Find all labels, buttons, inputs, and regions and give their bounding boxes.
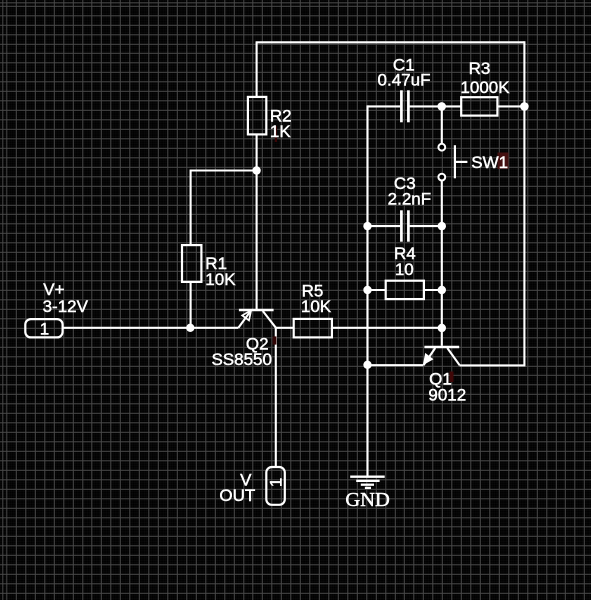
wire R2 bottom riser (256, 134, 258, 170)
svg-text:2.2nF: 2.2nF (388, 189, 431, 208)
switch SW1 (438, 144, 467, 181)
svg-text:10K: 10K (301, 297, 332, 316)
wire Q2 collector down to VOUT (275, 328, 277, 467)
capacitor C1 plates (401, 90, 408, 122)
junction node C1/R3/SW (437, 102, 446, 111)
junction node R4 left (363, 286, 371, 294)
wire switch top (441, 106, 443, 143)
wire R1 bottom riser (190, 282, 192, 328)
transistor Q1 (423, 347, 460, 365)
wire C3 right (410, 225, 442, 227)
junction node R3 right (520, 102, 529, 111)
red artifact Q1 (450, 372, 454, 383)
svg-text:1: 1 (40, 319, 49, 338)
red artifact Q2 (273, 336, 277, 344)
red artifact SW1 (498, 153, 509, 170)
svg-text:R3: R3 (469, 59, 491, 78)
svg-text:3-12V: 3-12V (43, 297, 89, 316)
wire node to R1 (191, 169, 258, 171)
wire R1 top riser (190, 170, 192, 246)
junction node R4 right (438, 286, 446, 294)
junction node Q1 emitter/GND (363, 361, 371, 369)
resistor R3 (461, 97, 497, 115)
svg-text:1K: 1K (270, 122, 291, 141)
wire top horizontal (256, 41, 525, 43)
wire R4 left (368, 289, 386, 291)
wire left column (366, 105, 368, 475)
capacitor C3 plates (401, 210, 408, 241)
wire C3 left (368, 225, 401, 227)
junction node C3 left (363, 222, 371, 230)
wire Q1 collector row (460, 364, 526, 366)
svg-text:10: 10 (395, 260, 414, 279)
red artifact R2 1K (275, 126, 277, 142)
wire R2 top riser (256, 42, 258, 97)
wire C1 right (410, 105, 442, 107)
wire R4 right (424, 289, 442, 291)
wire V+ row (63, 327, 239, 329)
junction node V+/R1 (186, 324, 194, 332)
resistor R5 (294, 319, 332, 338)
port V+ pin 1 (25, 319, 62, 337)
svg-text:9012: 9012 (428, 386, 466, 405)
junction node R5/Q1 base (438, 324, 446, 332)
resistor R2 (248, 97, 266, 134)
wire R3 right (497, 105, 524, 107)
wire R3 left (442, 105, 462, 107)
resistor R4 (386, 281, 424, 299)
wire Q2 base riser (256, 171, 258, 310)
svg-text:10K: 10K (205, 270, 236, 289)
wire Q2 collector to R5 (276, 327, 294, 329)
wire far-right vertical (523, 41, 525, 365)
port V OUT pin 1 (266, 467, 285, 505)
svg-text:SW1: SW1 (471, 153, 508, 172)
ground (350, 477, 385, 488)
wire C1 left (368, 105, 401, 107)
junction node C3 right (438, 222, 446, 230)
svg-text:SS8550: SS8550 (211, 350, 272, 369)
junction node R2/R1/Q2 (252, 166, 260, 174)
svg-text:0.47uF: 0.47uF (378, 71, 431, 90)
svg-text:1: 1 (266, 478, 285, 487)
resistor R1 (182, 245, 201, 282)
svg-text:OUT: OUT (219, 486, 255, 505)
wire switch bottom column (441, 181, 443, 346)
svg-text:1000K: 1000K (460, 78, 510, 97)
transistor Q2 (238, 310, 275, 328)
wire R5 right (332, 327, 442, 329)
wire Q1 emitter row (368, 364, 424, 366)
svg-text:GND: GND (345, 489, 389, 511)
